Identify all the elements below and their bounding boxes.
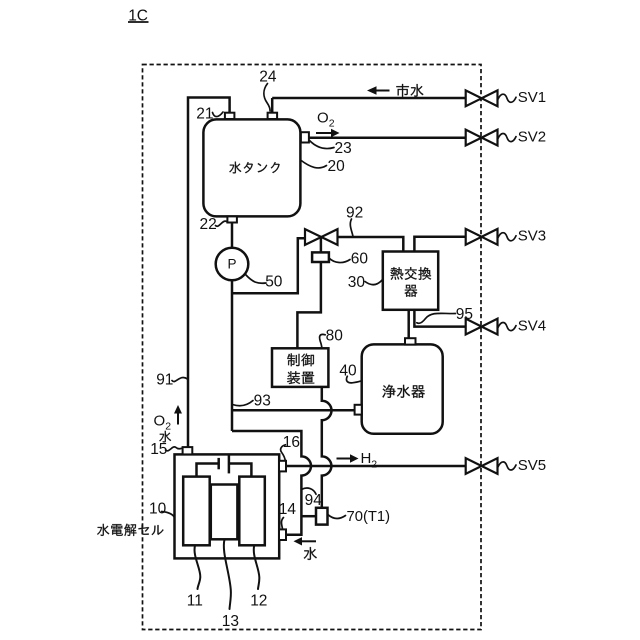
svg-text:2: 2: [371, 459, 377, 471]
svg-text:SV1: SV1: [518, 89, 546, 106]
svg-text:P: P: [227, 257, 236, 272]
svg-text:20: 20: [328, 158, 346, 175]
svg-text:24: 24: [259, 68, 277, 85]
svg-text:40: 40: [339, 362, 357, 379]
svg-text:SV2: SV2: [518, 128, 546, 145]
svg-text:22: 22: [200, 216, 217, 233]
svg-text:14: 14: [279, 501, 297, 518]
svg-text:30: 30: [348, 274, 366, 291]
svg-text:50: 50: [265, 273, 283, 290]
svg-text:O: O: [154, 413, 166, 430]
svg-text:2: 2: [329, 118, 335, 130]
svg-text:95: 95: [456, 306, 473, 323]
svg-text:12: 12: [250, 592, 267, 609]
svg-text:H: H: [361, 450, 372, 467]
svg-text:94: 94: [305, 492, 323, 509]
svg-text:23: 23: [335, 140, 352, 157]
svg-text:15: 15: [150, 441, 167, 458]
svg-text:SV4: SV4: [518, 317, 546, 334]
svg-text:93: 93: [254, 392, 271, 409]
svg-text:SV5: SV5: [518, 457, 546, 474]
svg-text:70(T1): 70(T1): [347, 509, 391, 525]
svg-text:80: 80: [326, 328, 344, 345]
svg-text:92: 92: [346, 204, 363, 221]
svg-text:60: 60: [351, 250, 369, 267]
svg-text:91: 91: [156, 372, 173, 389]
svg-text:2: 2: [165, 421, 171, 433]
svg-text:SV3: SV3: [518, 228, 546, 245]
svg-text:21: 21: [196, 105, 213, 122]
svg-text:O: O: [317, 110, 329, 127]
svg-text:10: 10: [149, 500, 167, 517]
svg-text:11: 11: [187, 592, 203, 609]
svg-text:13: 13: [222, 613, 239, 630]
svg-text:16: 16: [283, 434, 300, 451]
